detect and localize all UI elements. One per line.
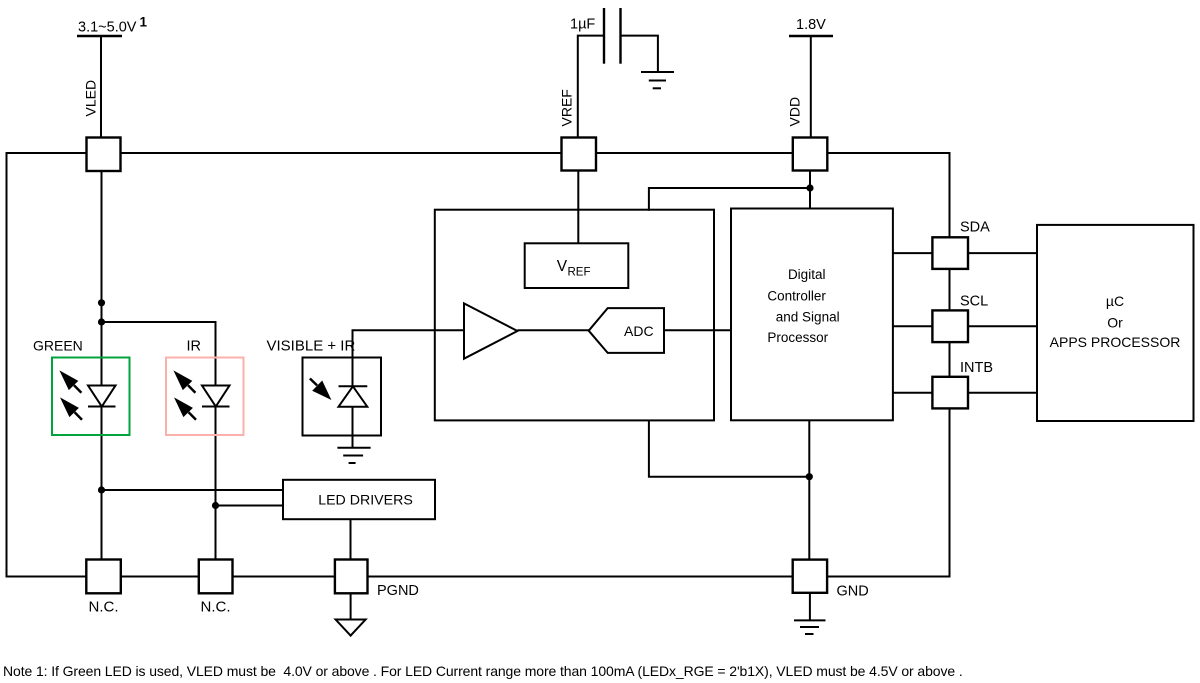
pad SDA bbox=[932, 237, 968, 269]
pad VREF bbox=[562, 138, 597, 171]
capacitor C1 1uF bbox=[604, 8, 621, 64]
wire VDD supply to pad bbox=[810, 36, 812, 140]
svg-text:SCL: SCL bbox=[960, 294, 988, 310]
wire PGND pad to ground arrow bbox=[350, 593, 352, 620]
svg-text:V: V bbox=[557, 258, 568, 275]
ground below photodiode bbox=[337, 448, 370, 463]
wire VDD to analog front end bbox=[649, 188, 810, 211]
svg-text:1µF: 1µF bbox=[570, 17, 595, 33]
svg-text:N.C.: N.C. bbox=[201, 599, 231, 616]
wire GND pad to ground bbox=[809, 593, 811, 620]
op-amp U1 bbox=[464, 303, 517, 358]
wire ADC to digital controller bbox=[664, 329, 731, 331]
svg-text:Digital: Digital bbox=[788, 267, 826, 282]
wire digital controller to GND pad bbox=[808, 420, 810, 562]
wire digital to INTB pad bbox=[893, 392, 934, 394]
VREF block bbox=[525, 243, 629, 288]
wire cap left to VREF bbox=[578, 36, 604, 140]
processor box bbox=[1037, 225, 1194, 421]
wire IR LED to LED driver bbox=[216, 505, 285, 507]
wire SCL pad to processor bbox=[966, 325, 1038, 327]
chip outline bbox=[7, 153, 950, 577]
svg-text:Note 1: If Green LED is used,: Note 1: If Green LED is used, VLED must … bbox=[3, 663, 963, 679]
svg-text:1: 1 bbox=[140, 15, 148, 30]
svg-text:APPS PROCESSOR: APPS PROCESSOR bbox=[1050, 334, 1181, 350]
LED D2 emission arrows bbox=[173, 370, 196, 419]
wire digital to SDA pad bbox=[893, 252, 934, 254]
svg-text:Controller: Controller bbox=[767, 288, 826, 303]
svg-text:Or: Or bbox=[1107, 315, 1123, 331]
LED D1 emission arrows bbox=[59, 370, 82, 419]
wire LED DRIVERS to PGND pad bbox=[350, 519, 352, 562]
LED D1 (green) symbol bbox=[88, 386, 116, 407]
LED D2 (IR) symbol bbox=[202, 386, 230, 407]
svg-text:PGND: PGND bbox=[377, 583, 419, 599]
pad SCL bbox=[932, 310, 968, 342]
analog front end box bbox=[435, 210, 714, 421]
svg-text:LED DRIVERS: LED DRIVERS bbox=[318, 493, 413, 509]
PGND ground arrow bbox=[336, 620, 366, 636]
wire green LED to LED driver bbox=[102, 489, 285, 491]
IR LED outline box bbox=[166, 358, 244, 436]
node junction dot VDD bbox=[806, 184, 813, 191]
svg-text:VLED: VLED bbox=[83, 80, 99, 117]
wire VLED supply to pad bbox=[100, 36, 102, 140]
svg-text:1.8V: 1.8V bbox=[796, 17, 826, 33]
svg-text:VREF: VREF bbox=[559, 89, 575, 126]
wire cap right to ground bbox=[621, 36, 658, 72]
svg-text:µC: µC bbox=[1106, 293, 1124, 309]
svg-text:ADC: ADC bbox=[624, 323, 654, 339]
wire VREF pad to VREF block bbox=[577, 168, 579, 245]
pad N.C. 1 bbox=[86, 560, 121, 594]
svg-text:3.1~5.0V: 3.1~5.0V bbox=[78, 20, 137, 36]
pad N.C. 2 bbox=[199, 560, 233, 594]
wire amp output to ADC bbox=[517, 329, 589, 331]
supply rail VLED 3.1~5.0V bbox=[77, 15, 148, 36]
node junction dot on VLED line bbox=[98, 299, 105, 306]
svg-text:REF: REF bbox=[568, 267, 591, 279]
svg-text:Processor: Processor bbox=[767, 330, 828, 345]
svg-text:VISIBLE + IR: VISIBLE + IR bbox=[267, 338, 356, 355]
svg-text:GREEN: GREEN bbox=[33, 338, 83, 354]
photodiode box bbox=[303, 358, 382, 436]
pad GND bbox=[793, 560, 827, 593]
svg-text:IR: IR bbox=[187, 339, 202, 355]
wire analog front end bottom to GND net bbox=[649, 420, 809, 476]
LED DRIVERS box bbox=[283, 480, 435, 519]
node junction dot GND net bbox=[806, 473, 813, 480]
pad PGND bbox=[335, 560, 368, 594]
pad VLED bbox=[87, 138, 121, 172]
pad VDD bbox=[793, 138, 828, 171]
svg-text:INTB: INTB bbox=[960, 360, 993, 376]
digital controller box bbox=[731, 209, 893, 421]
svg-text:SDA: SDA bbox=[960, 220, 990, 236]
svg-text:GND: GND bbox=[837, 584, 869, 600]
svg-text:N.C.: N.C. bbox=[89, 599, 119, 616]
ground for capacitor bbox=[641, 72, 674, 88]
supply rail VDD 1.8V bbox=[789, 17, 833, 36]
ground for GND pad bbox=[794, 620, 826, 634]
wire SDA pad to processor bbox=[966, 252, 1038, 254]
wire digital to SCL pad bbox=[893, 325, 934, 327]
photodiode incident arrow bbox=[310, 379, 332, 401]
wire branch to IR anode bbox=[102, 322, 216, 562]
svg-text:VDD: VDD bbox=[787, 97, 803, 127]
photodiode D3 symbol bbox=[339, 358, 368, 448]
wire VDD pad to digital controller bbox=[809, 168, 811, 210]
wire INTB pad to processor bbox=[966, 392, 1038, 394]
wire VLED vertical inside chip bbox=[101, 168, 103, 562]
green LED outline box bbox=[52, 358, 130, 436]
node junction dot IR cathode to driver bbox=[212, 502, 219, 509]
pad INTB bbox=[932, 377, 968, 409]
svg-text:and Signal: and Signal bbox=[776, 310, 840, 325]
wire photodiode anode to amplifier input bbox=[353, 330, 465, 357]
node junction dot green cathode to driver bbox=[98, 486, 105, 493]
ADC block bbox=[589, 308, 664, 353]
node junction dot branch to IR bbox=[98, 318, 105, 325]
